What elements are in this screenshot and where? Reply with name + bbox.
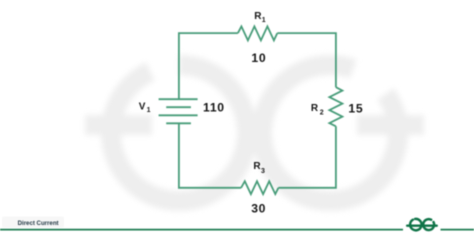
wire: [277, 33, 336, 87]
caption chip: [2, 217, 64, 228]
svg-text:10: 10: [251, 51, 266, 65]
label R3: [253, 161, 265, 175]
wire: [278, 126, 336, 188]
label R1: [254, 11, 265, 24]
svg-text:V: V: [139, 101, 146, 112]
svg-text:2: 2: [320, 109, 324, 116]
wire: [179, 33, 238, 99]
svg-text:1: 1: [147, 107, 151, 114]
svg-text:3: 3: [261, 168, 265, 175]
label V1: [139, 101, 151, 114]
footer line: [0, 229, 474, 231]
resistor R3: [241, 181, 278, 194]
svg-text:Direct Current: Direct Current: [18, 220, 59, 227]
svg-text:1: 1: [262, 17, 266, 24]
svg-text:15: 15: [348, 102, 363, 116]
svg-text:110: 110: [203, 101, 225, 115]
svg-text:R: R: [311, 103, 319, 114]
resistor R1: [238, 26, 277, 40]
resistor R2: [329, 87, 342, 126]
svg-text:30: 30: [251, 202, 266, 216]
geeksforgeeks logo: [407, 219, 437, 230]
battery V1: [159, 99, 198, 123]
label R2: [311, 103, 324, 117]
wire: [179, 123, 241, 187]
